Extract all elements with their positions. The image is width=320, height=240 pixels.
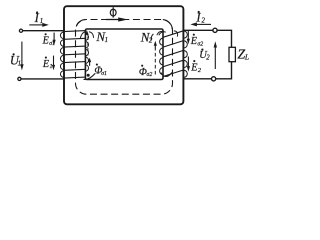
svg-text:σ1: σ1 xyxy=(101,71,107,77)
leakage flux phi-sigma1 corner arrow (up) with arcs xyxy=(80,30,93,39)
winding N1 bottom exit hook and junction dot xyxy=(84,73,96,79)
terminal: left bottom xyxy=(18,77,21,80)
voltage U2 arrow (up) xyxy=(214,41,217,69)
leakage flux phi-sigma1 dashed path xyxy=(87,37,89,56)
winding N2 window-side bumps xyxy=(160,38,164,75)
label E-sigma1 xyxy=(42,33,55,47)
EMF E1 arrow (down) xyxy=(52,56,55,71)
leakage flux phi-sigma2 dashed line with up arrow xyxy=(151,31,163,74)
svg-text:σ2: σ2 xyxy=(147,72,153,78)
winding N1 left-side bumps xyxy=(60,32,64,78)
label N2 xyxy=(140,29,153,44)
svg-text:1: 1 xyxy=(50,63,53,70)
svg-text:1: 1 xyxy=(40,18,43,25)
flux label Phi symbol xyxy=(110,7,116,17)
label I1 xyxy=(34,11,44,25)
svg-text:L: L xyxy=(244,53,249,62)
EMF E2 arrow (down) xyxy=(187,57,190,72)
terminal: right bottom xyxy=(212,77,216,81)
label ZL xyxy=(237,48,249,63)
EMF E-sigma2 arrow (down) xyxy=(187,31,190,45)
svg-text:1: 1 xyxy=(105,37,108,44)
wire: left bottom lead xyxy=(22,78,66,80)
winding N1 right-side bumps xyxy=(85,34,88,72)
label N1 xyxy=(95,29,108,44)
label U1 xyxy=(10,53,21,67)
EMF E-sigma1 arrow (down) xyxy=(53,33,56,46)
load impedance ZL box xyxy=(229,47,235,61)
winding N1 turn lines xyxy=(64,31,86,79)
svg-text:σ2: σ2 xyxy=(197,42,203,48)
svg-text:2: 2 xyxy=(202,17,206,24)
svg-text:1: 1 xyxy=(18,60,21,67)
terminal: left top xyxy=(19,29,22,32)
wire: right bottom lead with corner to load xyxy=(184,62,232,79)
current I1 arrow (points right) xyxy=(29,23,49,27)
wire: right top lead with corner to load xyxy=(183,30,231,47)
wire: left top lead xyxy=(23,30,65,32)
main flux dashed loop xyxy=(76,20,173,95)
current I2 arrow (points left) xyxy=(190,22,211,26)
leakage flux phi-sigma1 arrow (up, near label) xyxy=(88,58,91,66)
core window (inner edge) xyxy=(85,29,163,80)
label E-sigma2 xyxy=(190,34,203,48)
winding N2 outer-side bumps xyxy=(184,31,188,77)
label phi-sigma1 xyxy=(94,64,107,77)
svg-text:2: 2 xyxy=(206,55,210,62)
svg-text:2: 2 xyxy=(198,67,201,74)
label I2 xyxy=(195,11,205,25)
main flux arrow (points right) xyxy=(106,17,128,21)
winding N2 turn lines xyxy=(163,31,183,77)
label E1 xyxy=(42,57,53,71)
svg-text:σ1: σ1 xyxy=(49,41,55,47)
label U2 xyxy=(199,49,210,62)
terminal: right top xyxy=(213,28,217,32)
winding N2 top entry arc xyxy=(159,31,178,37)
voltage U1 arrow (down) xyxy=(20,42,23,71)
svg-text:2: 2 xyxy=(149,38,153,45)
label E2 xyxy=(190,60,201,74)
core outer edge xyxy=(64,6,183,104)
winding N2 bottom exit hook xyxy=(161,73,172,77)
label phi-sigma2 xyxy=(139,65,152,78)
